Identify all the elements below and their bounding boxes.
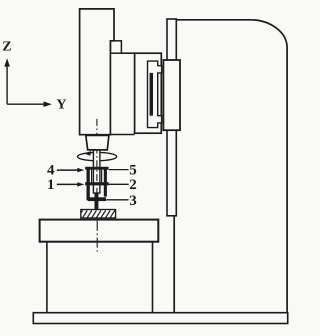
svg-text:Z: Z xyxy=(2,40,11,55)
svg-text:Y: Y xyxy=(56,98,66,113)
svg-text:3: 3 xyxy=(129,193,137,209)
svg-text:1: 1 xyxy=(47,177,55,193)
svg-text:2: 2 xyxy=(129,177,137,193)
